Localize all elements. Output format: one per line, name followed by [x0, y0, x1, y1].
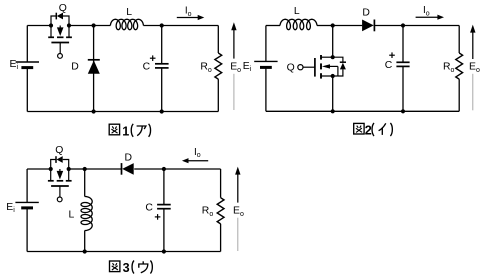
- capacitor C3: [157, 204, 171, 206]
- wire fig2 right rail upper: [458, 26, 460, 54]
- wire fig1 top rail MOSFET-to-diode-node: [69, 25, 94, 27]
- polarity plus sign fig2 capacitor: [389, 54, 395, 56]
- resistor R2 (load Ro): [456, 53, 463, 79]
- wire fig2 bottom rail: [266, 110, 459, 112]
- svg-text:2: 2: [365, 124, 372, 138]
- wire fig1 right rail upper: [217, 26, 219, 54]
- node fig2 mosfet bottom junction: [331, 109, 335, 113]
- current arrow Io fig1: [177, 17, 199, 19]
- svg-text:L: L: [69, 209, 75, 220]
- wire fig2 capacitor branch upper: [402, 26, 404, 63]
- svg-text:Q: Q: [55, 145, 63, 156]
- svg-text:Ei: Ei: [10, 59, 19, 71]
- wire fig1 capacitor branch lower: [161, 68, 163, 112]
- wire fig2 left rail upper: [265, 26, 267, 62]
- svg-text:D: D: [125, 152, 133, 163]
- caption fig3 図3（ウ）: [110, 261, 120, 272]
- svg-text:D: D: [362, 8, 370, 19]
- svg-text:Io: Io: [423, 5, 430, 17]
- wire fig2 right rail lower: [458, 79, 460, 111]
- polarity plus sign fig1 capacitor: [150, 57, 156, 59]
- svg-text:C: C: [143, 62, 151, 73]
- wire fig1 left rail upper: [26, 26, 28, 63]
- wire fig1 right rail lower: [217, 79, 219, 111]
- wire fig2 top rail left segment: [266, 25, 280, 27]
- wire fig3 left rail upper: [26, 169, 28, 202]
- svg-text:Io: Io: [194, 147, 201, 159]
- svg-text:C: C: [385, 60, 393, 71]
- wire fig3 top rail diode-to-cap-node: [134, 168, 164, 170]
- svg-text:Ro: Ro: [202, 206, 214, 218]
- wire fig2 top rail diode-to-cap-node: [374, 25, 403, 27]
- battery E1 (source Ei): [16, 61, 39, 63]
- wire fig2 mosfet drain: [332, 26, 334, 58]
- wire fig2 top rail cap-node-to-corner: [403, 25, 459, 27]
- wire fig3 inductor branch upper: [84, 169, 86, 197]
- diode D1 (freewheel, pointing up): [88, 59, 100, 61]
- svg-text:C: C: [145, 202, 153, 213]
- wire fig3 top rail left segment: [27, 168, 51, 170]
- wire fig3 left rail lower: [26, 208, 28, 252]
- wire fig3 top rail cap-node-to-corner: [164, 168, 221, 170]
- polarity plus sign fig3 capacitor: [155, 216, 161, 218]
- wire fig1 top rail inductor-to-cap-node: [143, 25, 161, 27]
- svg-text:Ro: Ro: [200, 62, 212, 74]
- voltage arrow Eo fig1 (lower grey tail): [233, 74, 235, 110]
- svg-text:D: D: [71, 61, 79, 72]
- inductor L1: [110, 19, 143, 29]
- diode D2 (pointing right): [362, 20, 374, 32]
- caption fig2 図2（イ）: [354, 123, 364, 134]
- wire fig2 top rail inductor-to-mosfet-node: [317, 25, 333, 27]
- current arrow Io fig3 (pointing left): [188, 160, 209, 162]
- wire fig3 capacitor branch lower: [163, 209, 165, 252]
- node fig2 capacitor top junction: [401, 23, 405, 27]
- resistor R1 (load Ro): [215, 53, 222, 79]
- inductor L2: [280, 19, 317, 29]
- node fig2 mosfet drain top junction: [331, 23, 335, 27]
- voltage arrow Eo fig3 (lower grey tail): [237, 218, 239, 251]
- voltage arrow Eo fig3 (upper black part): [237, 174, 239, 203]
- svg-text:Ei: Ei: [243, 61, 252, 73]
- capacitor C2: [396, 61, 409, 63]
- svg-text:L: L: [126, 7, 132, 18]
- svg-text:Ei: Ei: [6, 202, 15, 214]
- transistor Q2 (MOSFET with body diode): [303, 66, 315, 68]
- transistor Q3 (MOSFET with body diode): [51, 160, 69, 170]
- wire fig1 top rail cap-node-to-corner: [162, 25, 219, 27]
- node fig1 capacitor bottom junction: [160, 109, 164, 113]
- node fig3 capacitor bottom junction: [162, 249, 166, 253]
- voltage arrow Eo fig2 (upper black part): [472, 32, 474, 59]
- wire fig1 capacitor branch upper: [161, 26, 163, 64]
- wire fig1 diode branch: [93, 26, 95, 112]
- wire fig1 bottom rail: [27, 111, 218, 113]
- wire fig3 top rail L-node-to-diode: [85, 168, 121, 170]
- svg-text:3: 3: [123, 261, 130, 275]
- wire fig2 top rail mosfet-node-to-diode: [333, 25, 363, 27]
- battery E3 (source Ei): [15, 201, 38, 203]
- svg-text:Eo: Eo: [230, 62, 241, 74]
- wire fig2 mosfet source: [332, 76, 334, 111]
- node fig1 capacitor top junction: [160, 23, 164, 27]
- svg-text:L: L: [294, 6, 300, 17]
- battery E2 (source Ei): [254, 60, 277, 62]
- inductor L3 (vertical): [81, 197, 92, 231]
- voltage arrow Eo fig1 (upper black part): [233, 29, 235, 58]
- wire fig3 top rail MOSFET-to-L-node: [69, 168, 85, 170]
- resistor R3 (load Ro): [217, 198, 224, 224]
- capacitor C1: [155, 63, 169, 65]
- node fig2 capacitor bottom junction: [401, 109, 405, 113]
- node fig1 diode top junction: [92, 23, 96, 27]
- wire fig2 left rail lower: [265, 67, 267, 111]
- svg-text:Eo: Eo: [469, 62, 480, 74]
- voltage arrow Eo fig2 (lower grey tail): [472, 74, 474, 111]
- diode D3 (pointing left): [121, 163, 123, 175]
- wire fig3 right rail upper: [220, 169, 222, 198]
- node fig3 capacitor top junction: [162, 167, 166, 171]
- wire fig3 bottom rail: [27, 251, 221, 253]
- svg-text:1: 1: [122, 124, 129, 138]
- svg-text:Io: Io: [185, 6, 192, 18]
- wire fig1 left rail lower: [26, 68, 28, 112]
- node fig1 diode bottom junction: [92, 109, 96, 113]
- node fig3 inductor top junction: [83, 167, 87, 171]
- wire fig3 right rail lower: [220, 224, 222, 252]
- svg-text:Q: Q: [287, 62, 295, 73]
- node fig3 inductor bottom junction: [83, 249, 87, 253]
- svg-text:Eo: Eo: [233, 206, 244, 218]
- wire fig1 top rail diode-node-to-inductor: [94, 25, 111, 27]
- transistor Q1 (MOSFET with body diode): [51, 16, 69, 26]
- svg-text:Q: Q: [59, 3, 67, 14]
- svg-text:Ro: Ro: [443, 62, 455, 74]
- wire fig1 top rail left segment: [27, 25, 51, 27]
- wire fig2 capacitor branch lower: [402, 66, 404, 111]
- caption fig1 図1（ア）: [109, 124, 119, 135]
- wire fig3 inductor branch lower: [84, 231, 86, 252]
- current arrow Io fig2: [416, 16, 439, 18]
- wire fig3 capacitor branch upper: [163, 169, 165, 205]
